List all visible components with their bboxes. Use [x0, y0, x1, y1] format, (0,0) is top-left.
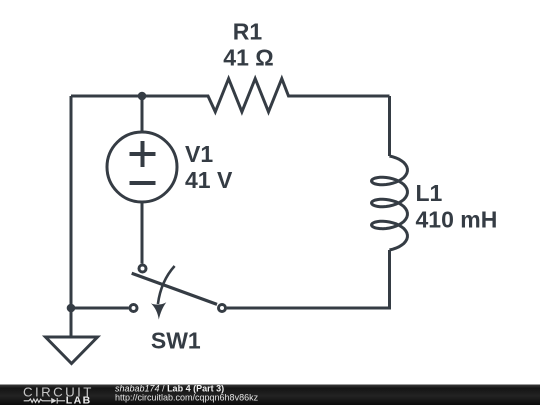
svg-text:V1: V1 [185, 141, 213, 167]
svg-text:R1: R1 [233, 19, 263, 45]
svg-text:LAB: LAB [66, 394, 92, 405]
svg-text:41 Ω: 41 Ω [223, 45, 273, 71]
svg-text:SW1: SW1 [151, 328, 201, 354]
svg-text:41 V: 41 V [185, 167, 233, 193]
svg-text:L1: L1 [416, 180, 443, 206]
svg-text:http://circuitlab.com/cqpqn6h8: http://circuitlab.com/cqpqn6h8v86kz [115, 393, 259, 403]
svg-text:410 mH: 410 mH [416, 207, 498, 233]
